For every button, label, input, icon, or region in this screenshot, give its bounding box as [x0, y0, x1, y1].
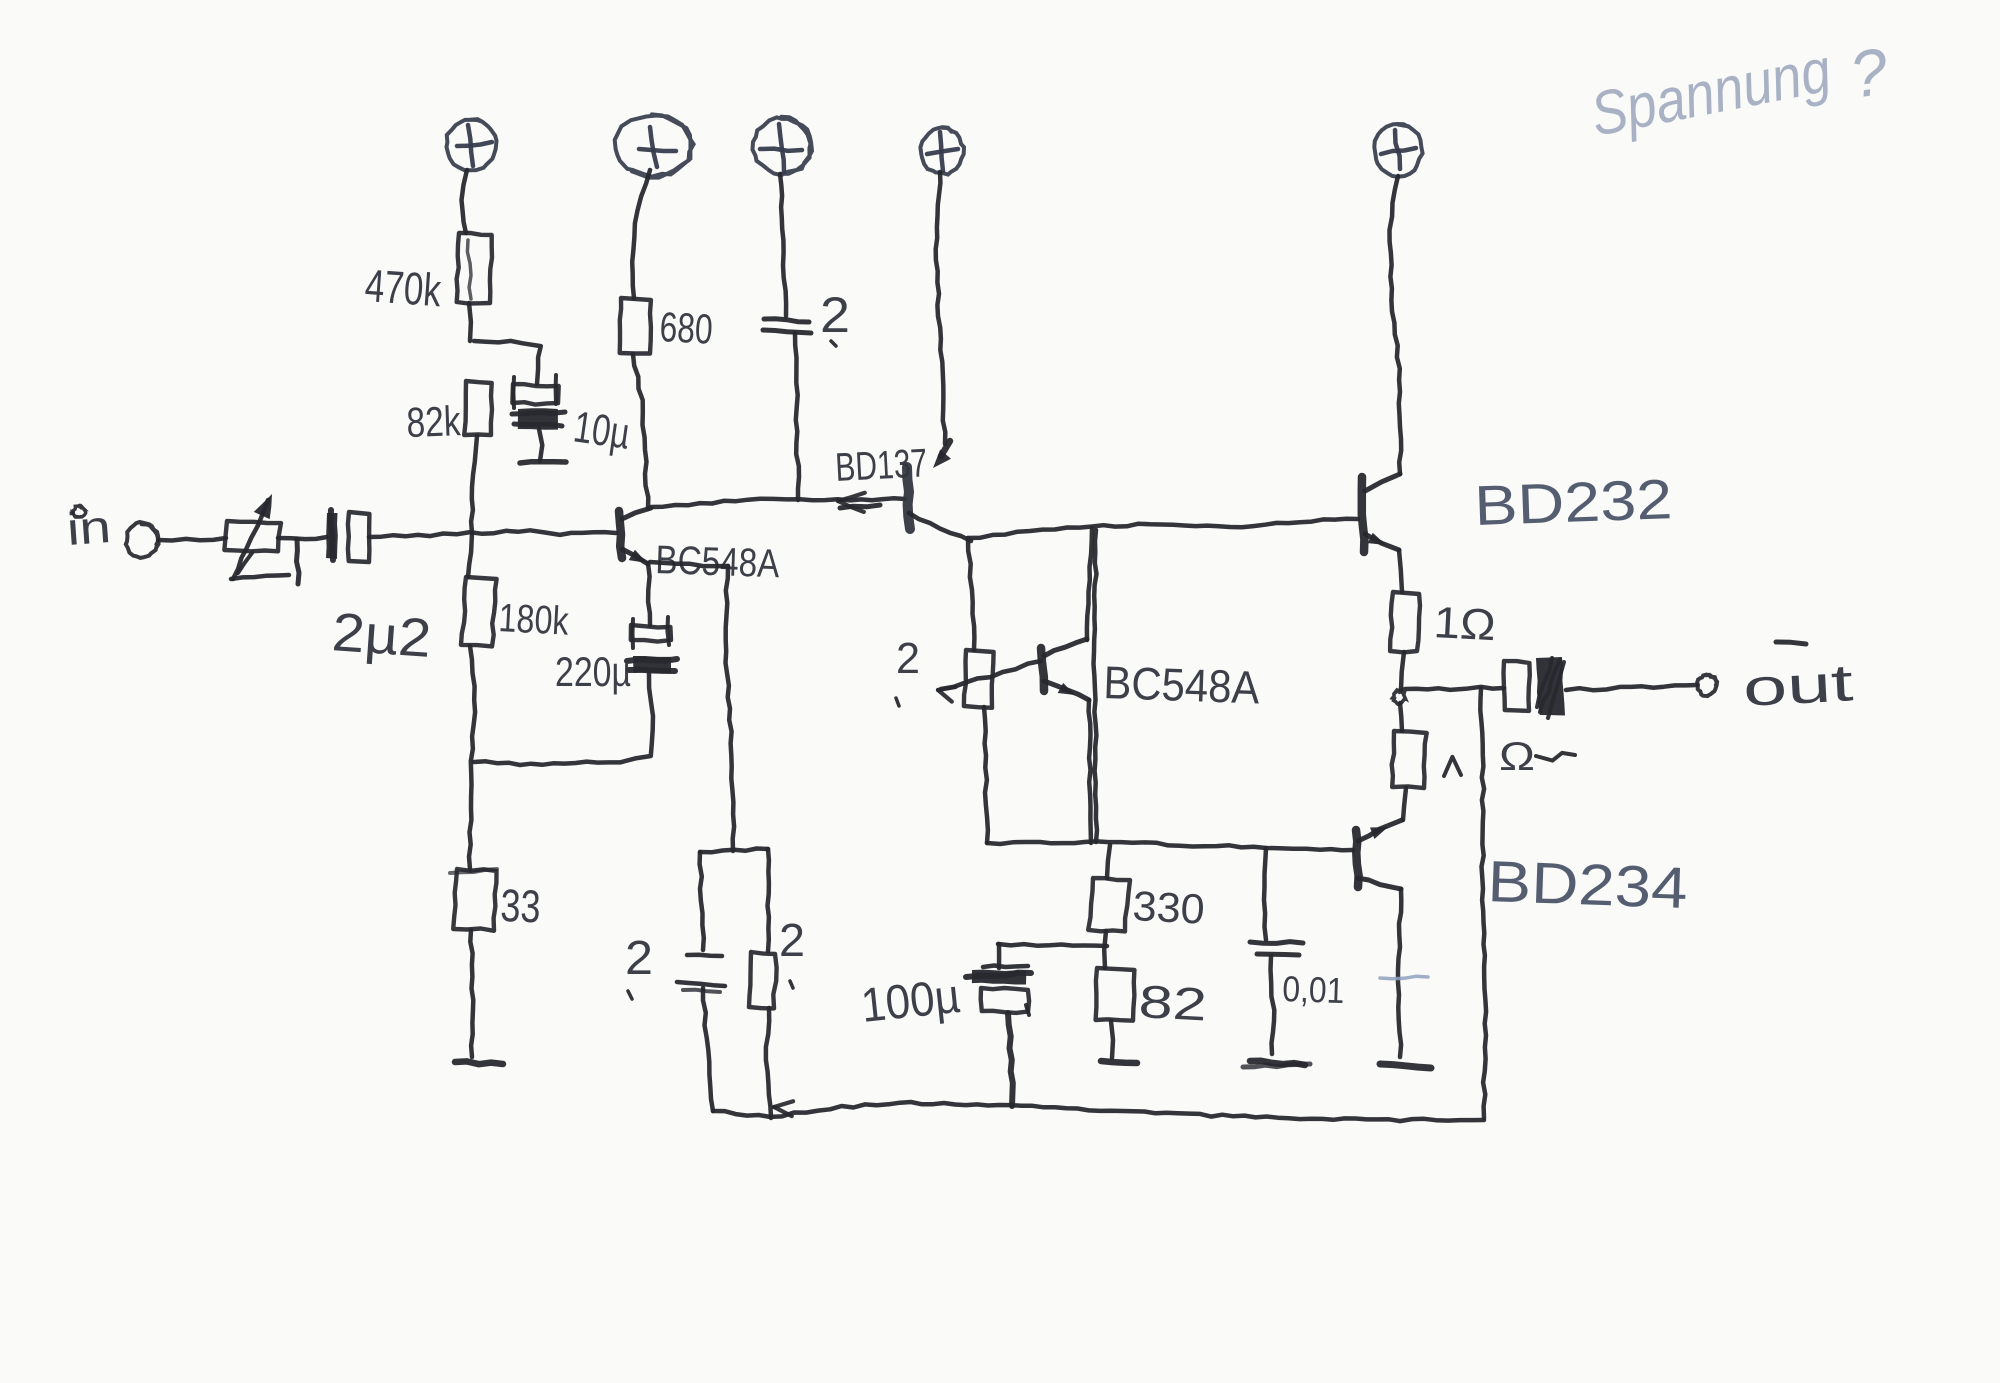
label in terminal [65, 500, 113, 555]
wire Q5 collector down [1380, 889, 1428, 1057]
wire R3 to R4 [469, 646, 475, 869]
capacitor C2 bottom plate [763, 330, 811, 333]
power +V terminal P2 [615, 114, 694, 177]
transistor Q3 emitter lead [1044, 681, 1089, 700]
label Q1 BC548A [655, 538, 781, 586]
wire loop top edge to Q4 base [968, 519, 1358, 538]
label Q4 BD232 [1473, 467, 1673, 537]
wire Q1 collector to Q2 emitter [651, 493, 905, 512]
transistor Q1 BC548A base bar [619, 511, 622, 558]
out terminal circle [1697, 675, 1717, 697]
terminal bar below C3 [520, 462, 566, 463]
ground bar below C7 [1243, 1061, 1310, 1067]
potentiometer wiper arrow to Q3 base [938, 661, 1041, 702]
wire P3 to C2 [780, 174, 786, 316]
label C3 10u [571, 402, 633, 458]
svg-text:180k: 180k [498, 596, 571, 644]
svg-text:0,01: 0,01 [1282, 968, 1345, 1011]
transistor Q4 collector lead [1365, 474, 1400, 491]
wire Q3 emitter down [1089, 700, 1091, 843]
svg-text:BD232: BD232 [1473, 467, 1673, 537]
capacitor C7 0.01 top plate [1250, 942, 1303, 944]
variable attenuator arrow [233, 494, 272, 579]
transistor Q1 emitter lead [622, 549, 648, 564]
svg-text:100µ: 100µ [859, 970, 963, 1033]
resistor R9 1ohm [1390, 592, 1420, 652]
capacitor C3 10u top plate [512, 375, 558, 408]
wire Q1 emitter to vertical [650, 562, 728, 566]
label R7 330 [1132, 882, 1206, 933]
wire C8 to out terminal [1566, 685, 1697, 690]
capacitor C4 220u top plate [631, 617, 671, 648]
label Q2 BD137 [834, 441, 928, 490]
transistor Q2 collector arrow [933, 441, 951, 468]
svg-text:2µ2: 2µ2 [330, 602, 433, 669]
resistor R3 180k [461, 577, 497, 646]
label R10 caret [1444, 757, 1461, 776]
label Q5 BD234 [1487, 849, 1689, 921]
wire bottom edge to C7 [1264, 848, 1266, 940]
wire R8 to ground [1111, 1021, 1113, 1058]
wire R6b down to bottom rail [766, 1008, 771, 1118]
svg-text:220µ: 220µ [555, 648, 631, 695]
power +V terminal P4 [920, 127, 964, 174]
wire R2 to input node [471, 436, 477, 533]
capacitor C6 100u top plate [966, 966, 1031, 985]
variable attenuator box [224, 521, 299, 584]
transistor Q5 BD234 base bar [1356, 830, 1359, 887]
svg-text:330: 330 [1132, 882, 1206, 933]
svg-text:82k: 82k [406, 397, 462, 446]
svg-text:1Ω: 1Ω [1432, 598, 1496, 650]
label R4 33 [500, 879, 542, 932]
capacitor C3 10u bottom plate [512, 408, 565, 430]
ground bar below R8 [1101, 1061, 1137, 1063]
potentiometer P box [964, 650, 994, 708]
resistor R5 680 [620, 298, 651, 354]
power +V terminal P3 [753, 117, 813, 175]
capacitor C7 0.01 bottom plate [1257, 954, 1299, 955]
capacitor C2 top plate [764, 319, 809, 322]
resistor R7 330 [1088, 878, 1130, 931]
wire P4 to Q2 [936, 172, 946, 444]
wire R9 to out node [1401, 652, 1404, 690]
input terminal circle [126, 522, 159, 558]
wire C5 down to bottom rail [703, 988, 713, 1111]
transistor Q2 BD137 base bar [907, 467, 910, 529]
label C4 220u [555, 648, 631, 695]
transistor Q1 collector lead [622, 508, 651, 519]
capacitor C5 bottom plate [677, 982, 725, 992]
wire Q4 emitter to R9 [1399, 550, 1402, 592]
label R3 180k [498, 596, 571, 644]
label C2 value 2 [820, 287, 850, 346]
ground bar below Q5 [1380, 1064, 1431, 1068]
resistor R10 1ohm [1392, 731, 1427, 788]
transistor Q5 collector lead [1357, 878, 1401, 889]
node ring at output node [1393, 690, 1406, 704]
resistor R1 470k [457, 233, 492, 304]
label Q3 BC548A [1103, 656, 1261, 713]
power +V terminal P1 [447, 119, 497, 170]
wire out node to R10 [1400, 703, 1402, 731]
transistor Q3 BC548A base bar [1041, 648, 1044, 691]
svg-text:BD137: BD137 [834, 441, 928, 490]
wire R4 to ground [470, 930, 473, 1057]
label out [1742, 642, 1856, 718]
transistor Q4 emitter lead [1365, 533, 1399, 550]
label R1 470k [363, 259, 443, 316]
wire C3 to end bar [539, 429, 542, 461]
wire vertical down to R6 [726, 566, 735, 851]
wire junction to C6 [998, 944, 1107, 968]
wire feedback down [1480, 688, 1486, 1118]
label C7 0.01 [1282, 968, 1345, 1011]
label R8 82 [1137, 975, 1208, 1030]
wire R7 to R8 [1104, 931, 1106, 968]
capacitor C1 2u2 right plate [348, 512, 370, 562]
wire R1 to node A [469, 303, 471, 341]
wire bottom rail [713, 1101, 1484, 1121]
label R2 82k [406, 397, 462, 446]
svg-text:BC548A: BC548A [1103, 656, 1261, 713]
wire P5 to Q4 collector [1390, 176, 1402, 474]
wire C7 to ground [1271, 956, 1275, 1054]
label C5 value 2 [625, 932, 653, 999]
resistor R2 82k [464, 381, 492, 435]
wire C6 to bottom rail [1008, 1013, 1013, 1106]
capacitor C5 top plate [687, 955, 722, 956]
wire P1 to R1 [462, 170, 468, 233]
wire out node to C8 [1405, 687, 1504, 690]
transistor Q2 base lead to loop [909, 513, 971, 541]
svg-text:2: 2 [896, 634, 920, 683]
svg-text:82: 82 [1137, 975, 1208, 1030]
svg-text:in: in [65, 500, 113, 555]
resistor R6 tall box [700, 849, 769, 952]
capacitor C1 2u2 left plate [326, 510, 338, 560]
svg-text:33: 33 [500, 879, 542, 932]
label R10 ohm [1499, 735, 1575, 779]
transistor Q3 collector lead [1044, 639, 1087, 656]
capacitor C4 220u bottom plate [627, 656, 677, 673]
wire Q3 collector up [1087, 528, 1092, 640]
svg-text:680: 680 [659, 303, 714, 353]
wire node A to C3 [474, 341, 541, 384]
wire R10 to Q5 emitter [1403, 788, 1406, 820]
wire loop bottom edge to Q5 base [987, 841, 1353, 850]
wire in to attenuator [158, 538, 226, 541]
note Spannung [1586, 33, 1893, 149]
resistor R6b small box [749, 952, 777, 1008]
resistor R8 82 [1096, 968, 1135, 1021]
wire input node to R3 [468, 533, 472, 577]
svg-text:Ω: Ω [1499, 735, 1535, 779]
transistor Q4 BD232 base bar [1362, 477, 1365, 552]
wire loop left top [968, 538, 974, 650]
power +V terminal P5 [1374, 124, 1422, 177]
label C6 100u [859, 970, 963, 1033]
wire Q1 emitter to C4 [648, 563, 650, 625]
capacitor C8 right plate [1536, 657, 1565, 718]
svg-text:out: out [1742, 654, 1856, 718]
label R9 1ohm [1432, 598, 1496, 650]
label C1 2u2 [330, 602, 433, 669]
wire C1 to Q1 base [369, 530, 616, 537]
svg-text:470k: 470k [363, 259, 443, 316]
svg-text:2: 2 [625, 932, 653, 985]
wire bottom edge to R7 [1107, 845, 1110, 878]
svg-text:10µ: 10µ [571, 402, 633, 458]
capacitor C8 left plate [1504, 661, 1530, 711]
svg-text:BD234: BD234 [1487, 849, 1689, 921]
label R6b value 2 [779, 914, 805, 988]
label P value 2 [896, 634, 920, 706]
ground bar below R4 [455, 1061, 503, 1064]
svg-text:2: 2 [820, 287, 850, 343]
wire loop left bottom [984, 707, 988, 843]
svg-text:2: 2 [779, 914, 805, 966]
wire R5 to Q1 collector [633, 354, 648, 509]
wire C4 bottom L to R3 column [474, 674, 653, 765]
resistor R4 33 [450, 869, 497, 931]
wire loop right edge [1094, 530, 1098, 842]
wire attenuator to C1 [278, 537, 327, 539]
capacitor C6 100u bottom plate [981, 988, 1029, 1015]
wire P2 to R5 [632, 170, 650, 298]
wire C2 to node wire [795, 333, 799, 500]
label R5 680 [659, 303, 714, 353]
transistor Q5 emitter lead [1358, 820, 1402, 841]
